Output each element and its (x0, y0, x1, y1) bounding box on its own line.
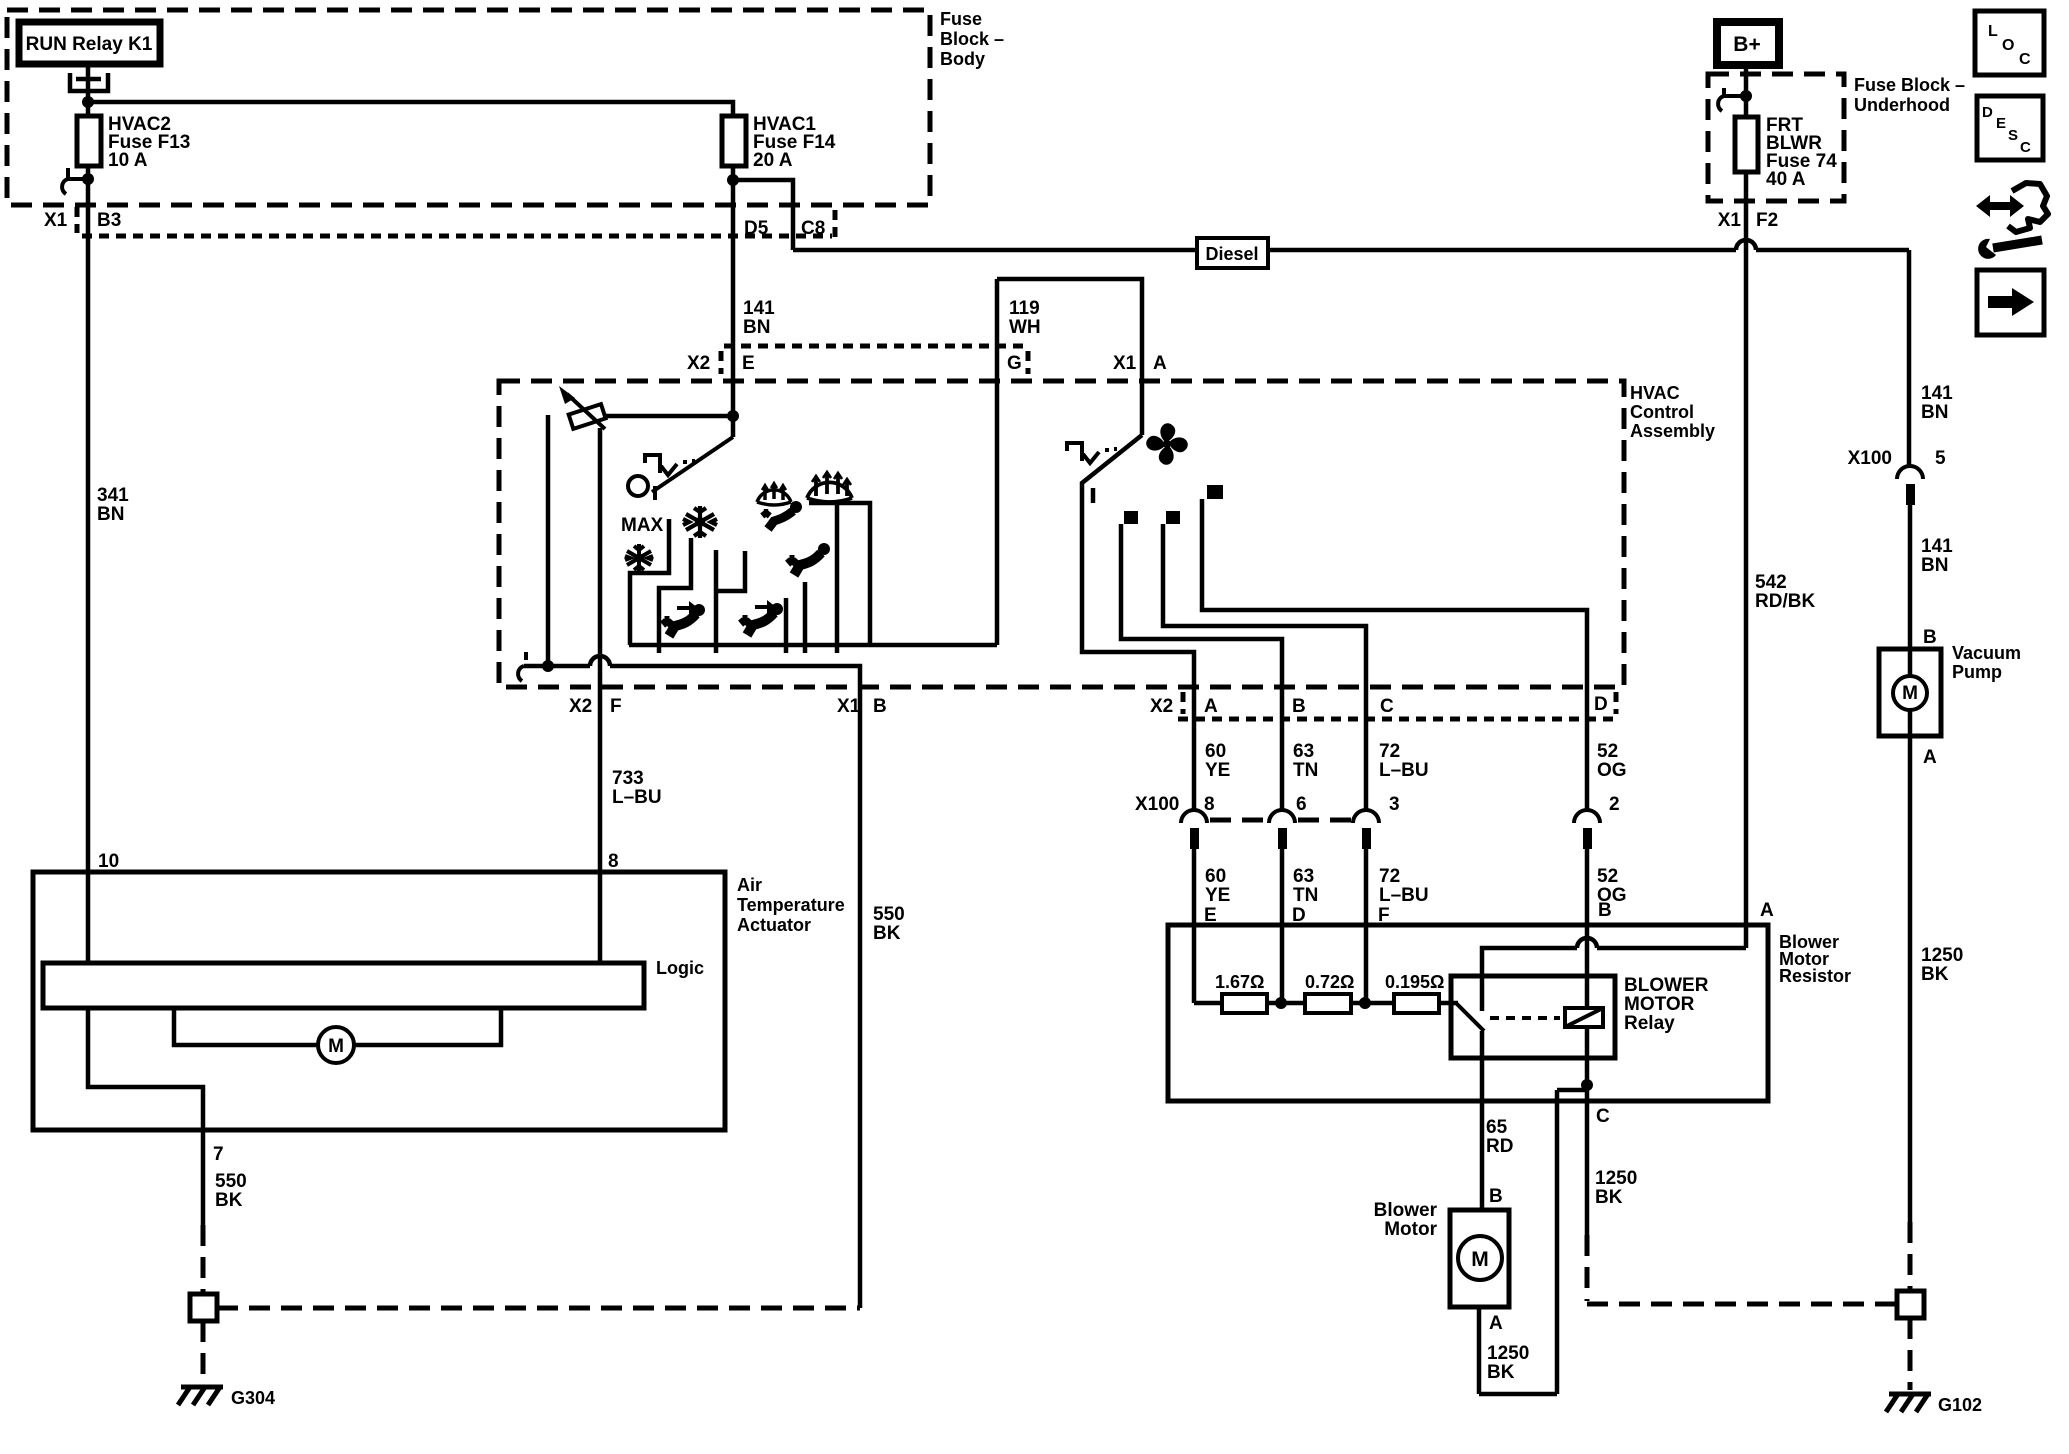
svg-text:7: 7 (213, 1144, 224, 1165)
svg-text:63: 63 (1293, 866, 1314, 887)
svg-text:0.195Ω: 0.195Ω (1385, 972, 1444, 992)
svg-text:550: 550 (873, 904, 905, 925)
svg-text:20 A: 20 A (753, 150, 793, 171)
svg-text:Control: Control (1630, 402, 1694, 422)
svg-text:Actuator: Actuator (737, 915, 811, 935)
svg-text:S: S (2008, 127, 2018, 144)
svg-text:B: B (1598, 900, 1612, 921)
svg-text:550: 550 (215, 1171, 247, 1192)
svg-text:D: D (1594, 694, 1608, 715)
svg-text:TN: TN (1293, 760, 1318, 781)
svg-text:D5: D5 (744, 218, 769, 239)
svg-text:M: M (328, 1036, 344, 1057)
svg-text:BN: BN (1921, 555, 1948, 576)
svg-text:Fuse: Fuse (940, 9, 982, 29)
svg-text:X1: X1 (1113, 353, 1137, 374)
svg-text:Assembly: Assembly (1630, 421, 1715, 441)
svg-text:M: M (1471, 1248, 1489, 1271)
svg-text:52: 52 (1597, 866, 1618, 887)
svg-text:Air: Air (737, 875, 762, 895)
svg-text:X1: X1 (1718, 210, 1742, 231)
svg-text:72: 72 (1379, 866, 1400, 887)
svg-text:Diesel: Diesel (1205, 244, 1258, 264)
svg-text:B: B (873, 696, 887, 717)
svg-text:BLOWER: BLOWER (1624, 975, 1709, 996)
svg-text:MAX: MAX (621, 515, 664, 536)
svg-text:RUN Relay K1: RUN Relay K1 (26, 34, 153, 55)
svg-text:B: B (1489, 1186, 1503, 1207)
svg-text:C: C (2019, 51, 2031, 68)
svg-text:1.67Ω: 1.67Ω (1215, 972, 1264, 992)
svg-text:Pump: Pump (1952, 662, 2002, 682)
svg-text:BK: BK (1595, 1187, 1623, 1208)
svg-text:BK: BK (1487, 1362, 1515, 1383)
svg-text:X1: X1 (44, 210, 68, 231)
svg-text:BK: BK (1921, 964, 1949, 985)
svg-text:Relay: Relay (1624, 1013, 1675, 1034)
svg-text:WH: WH (1009, 317, 1041, 338)
svg-text:5: 5 (1935, 448, 1946, 469)
svg-text:Vacuum: Vacuum (1952, 643, 2021, 663)
svg-text:A: A (1489, 1313, 1503, 1334)
svg-text:E: E (742, 353, 755, 374)
svg-text:63: 63 (1293, 741, 1314, 762)
svg-text:MOTOR: MOTOR (1624, 994, 1695, 1015)
svg-text:141: 141 (1921, 536, 1953, 557)
svg-text:RD/BK: RD/BK (1755, 591, 1815, 612)
svg-text:119: 119 (1009, 298, 1040, 319)
svg-text:G102: G102 (1938, 1395, 1982, 1415)
svg-text:C: C (2020, 139, 2031, 156)
svg-text:141: 141 (743, 298, 775, 319)
svg-text:YE: YE (1205, 885, 1230, 906)
svg-text:0.72Ω: 0.72Ω (1305, 972, 1354, 992)
svg-text:F: F (610, 696, 622, 717)
svg-text:Logic: Logic (656, 958, 704, 978)
svg-text:10: 10 (98, 851, 119, 872)
svg-text:40 A: 40 A (1766, 169, 1806, 190)
svg-text:2: 2 (1609, 794, 1620, 815)
svg-text:B: B (1292, 696, 1306, 717)
svg-text:G304: G304 (231, 1388, 275, 1408)
svg-text:D: D (1982, 104, 1993, 121)
svg-text:10 A: 10 A (108, 150, 148, 171)
svg-text:B: B (1923, 627, 1937, 648)
svg-text:60: 60 (1205, 741, 1226, 762)
svg-text:X2: X2 (569, 696, 592, 717)
svg-text:O: O (2002, 37, 2014, 54)
svg-text:A: A (1923, 747, 1937, 768)
svg-text:Body: Body (940, 49, 985, 69)
svg-text:F2: F2 (1756, 210, 1778, 231)
svg-text:HVAC: HVAC (1630, 383, 1680, 403)
svg-text:Resistor: Resistor (1779, 966, 1851, 986)
svg-text:Block –: Block – (940, 29, 1004, 49)
svg-text:1250: 1250 (1921, 945, 1963, 966)
svg-text:1250: 1250 (1595, 1168, 1637, 1189)
svg-text:A: A (1204, 696, 1218, 717)
svg-text:YE: YE (1205, 760, 1230, 781)
svg-text:X100: X100 (1135, 794, 1179, 815)
svg-text:C: C (1380, 696, 1394, 717)
svg-text:L–BU: L–BU (612, 787, 662, 808)
svg-text:341: 341 (97, 485, 129, 506)
svg-text:L–BU: L–BU (1379, 885, 1429, 906)
svg-text:RD: RD (1486, 1136, 1513, 1157)
svg-text:BK: BK (873, 923, 901, 944)
svg-text:8: 8 (608, 851, 619, 872)
svg-text:X100: X100 (1848, 448, 1892, 469)
svg-text:1250: 1250 (1487, 1343, 1529, 1364)
svg-text:OG: OG (1597, 760, 1627, 781)
svg-text:A: A (1760, 900, 1774, 921)
svg-text:8: 8 (1204, 794, 1215, 815)
svg-text:6: 6 (1296, 794, 1307, 815)
svg-text:60: 60 (1205, 866, 1226, 887)
svg-text:X1: X1 (837, 696, 861, 717)
svg-text:72: 72 (1379, 741, 1400, 762)
svg-text:M: M (1902, 683, 1918, 704)
svg-text:B+: B+ (1733, 33, 1760, 56)
svg-text:X2: X2 (687, 353, 710, 374)
svg-text:BN: BN (1921, 402, 1948, 423)
svg-text:65: 65 (1486, 1117, 1508, 1138)
svg-text:733: 733 (612, 768, 644, 789)
svg-text:542: 542 (1755, 572, 1787, 593)
svg-text:BN: BN (97, 504, 124, 525)
svg-text:3: 3 (1389, 794, 1400, 815)
svg-text:52: 52 (1597, 741, 1618, 762)
svg-text:L–BU: L–BU (1379, 760, 1429, 781)
svg-text:Underhood: Underhood (1854, 95, 1950, 115)
svg-text:E: E (1996, 115, 2006, 132)
svg-text:BK: BK (215, 1190, 243, 1211)
svg-text:TN: TN (1293, 885, 1318, 906)
svg-text:BN: BN (743, 317, 770, 338)
svg-text:Fuse Block –: Fuse Block – (1854, 75, 1965, 95)
svg-text:C: C (1596, 1106, 1610, 1127)
svg-text:Blower: Blower (1374, 1200, 1438, 1221)
svg-text:X2: X2 (1150, 696, 1173, 717)
svg-text:Motor: Motor (1384, 1219, 1437, 1240)
svg-text:C8: C8 (801, 218, 825, 239)
svg-text:L: L (1988, 23, 1998, 40)
svg-text:A: A (1153, 353, 1167, 374)
svg-text:G: G (1007, 353, 1022, 374)
svg-text:141: 141 (1921, 383, 1953, 404)
svg-text:Temperature: Temperature (737, 895, 845, 915)
svg-text:B3: B3 (97, 210, 121, 231)
